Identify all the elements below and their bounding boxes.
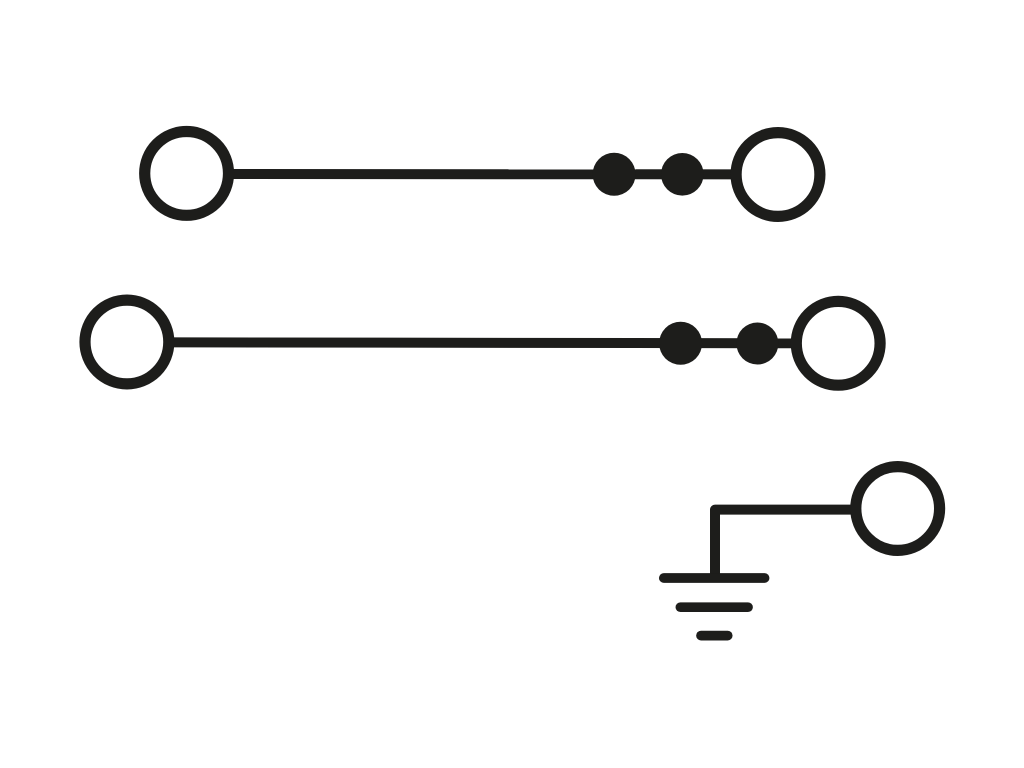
wire: level 2 conductor <box>127 342 838 343</box>
junction dot 1 on level 2 wire <box>659 322 702 365</box>
junction dot 2 on level 1 wire <box>661 153 704 196</box>
terminal circle: ground clamp <box>856 467 940 551</box>
terminal circle: level 1 left clamp <box>145 132 229 216</box>
ground symbol bar 3 (bottom, shortest) <box>701 631 728 641</box>
terminal circle: level 2 right clamp <box>796 301 880 385</box>
junction dot 2 on level 2 wire <box>736 323 778 365</box>
junction dot 1 on level 1 wire <box>593 153 636 196</box>
wire: ground lead (horizontal then down) <box>715 510 852 578</box>
ground symbol bar 2 (middle) <box>680 602 748 612</box>
ground symbol bar 1 (top, longest) <box>664 573 765 583</box>
terminal circle: level 2 left clamp <box>85 300 169 384</box>
wire: level 1 conductor <box>186 169 778 179</box>
terminal circle: level 1 right clamp <box>736 133 820 217</box>
